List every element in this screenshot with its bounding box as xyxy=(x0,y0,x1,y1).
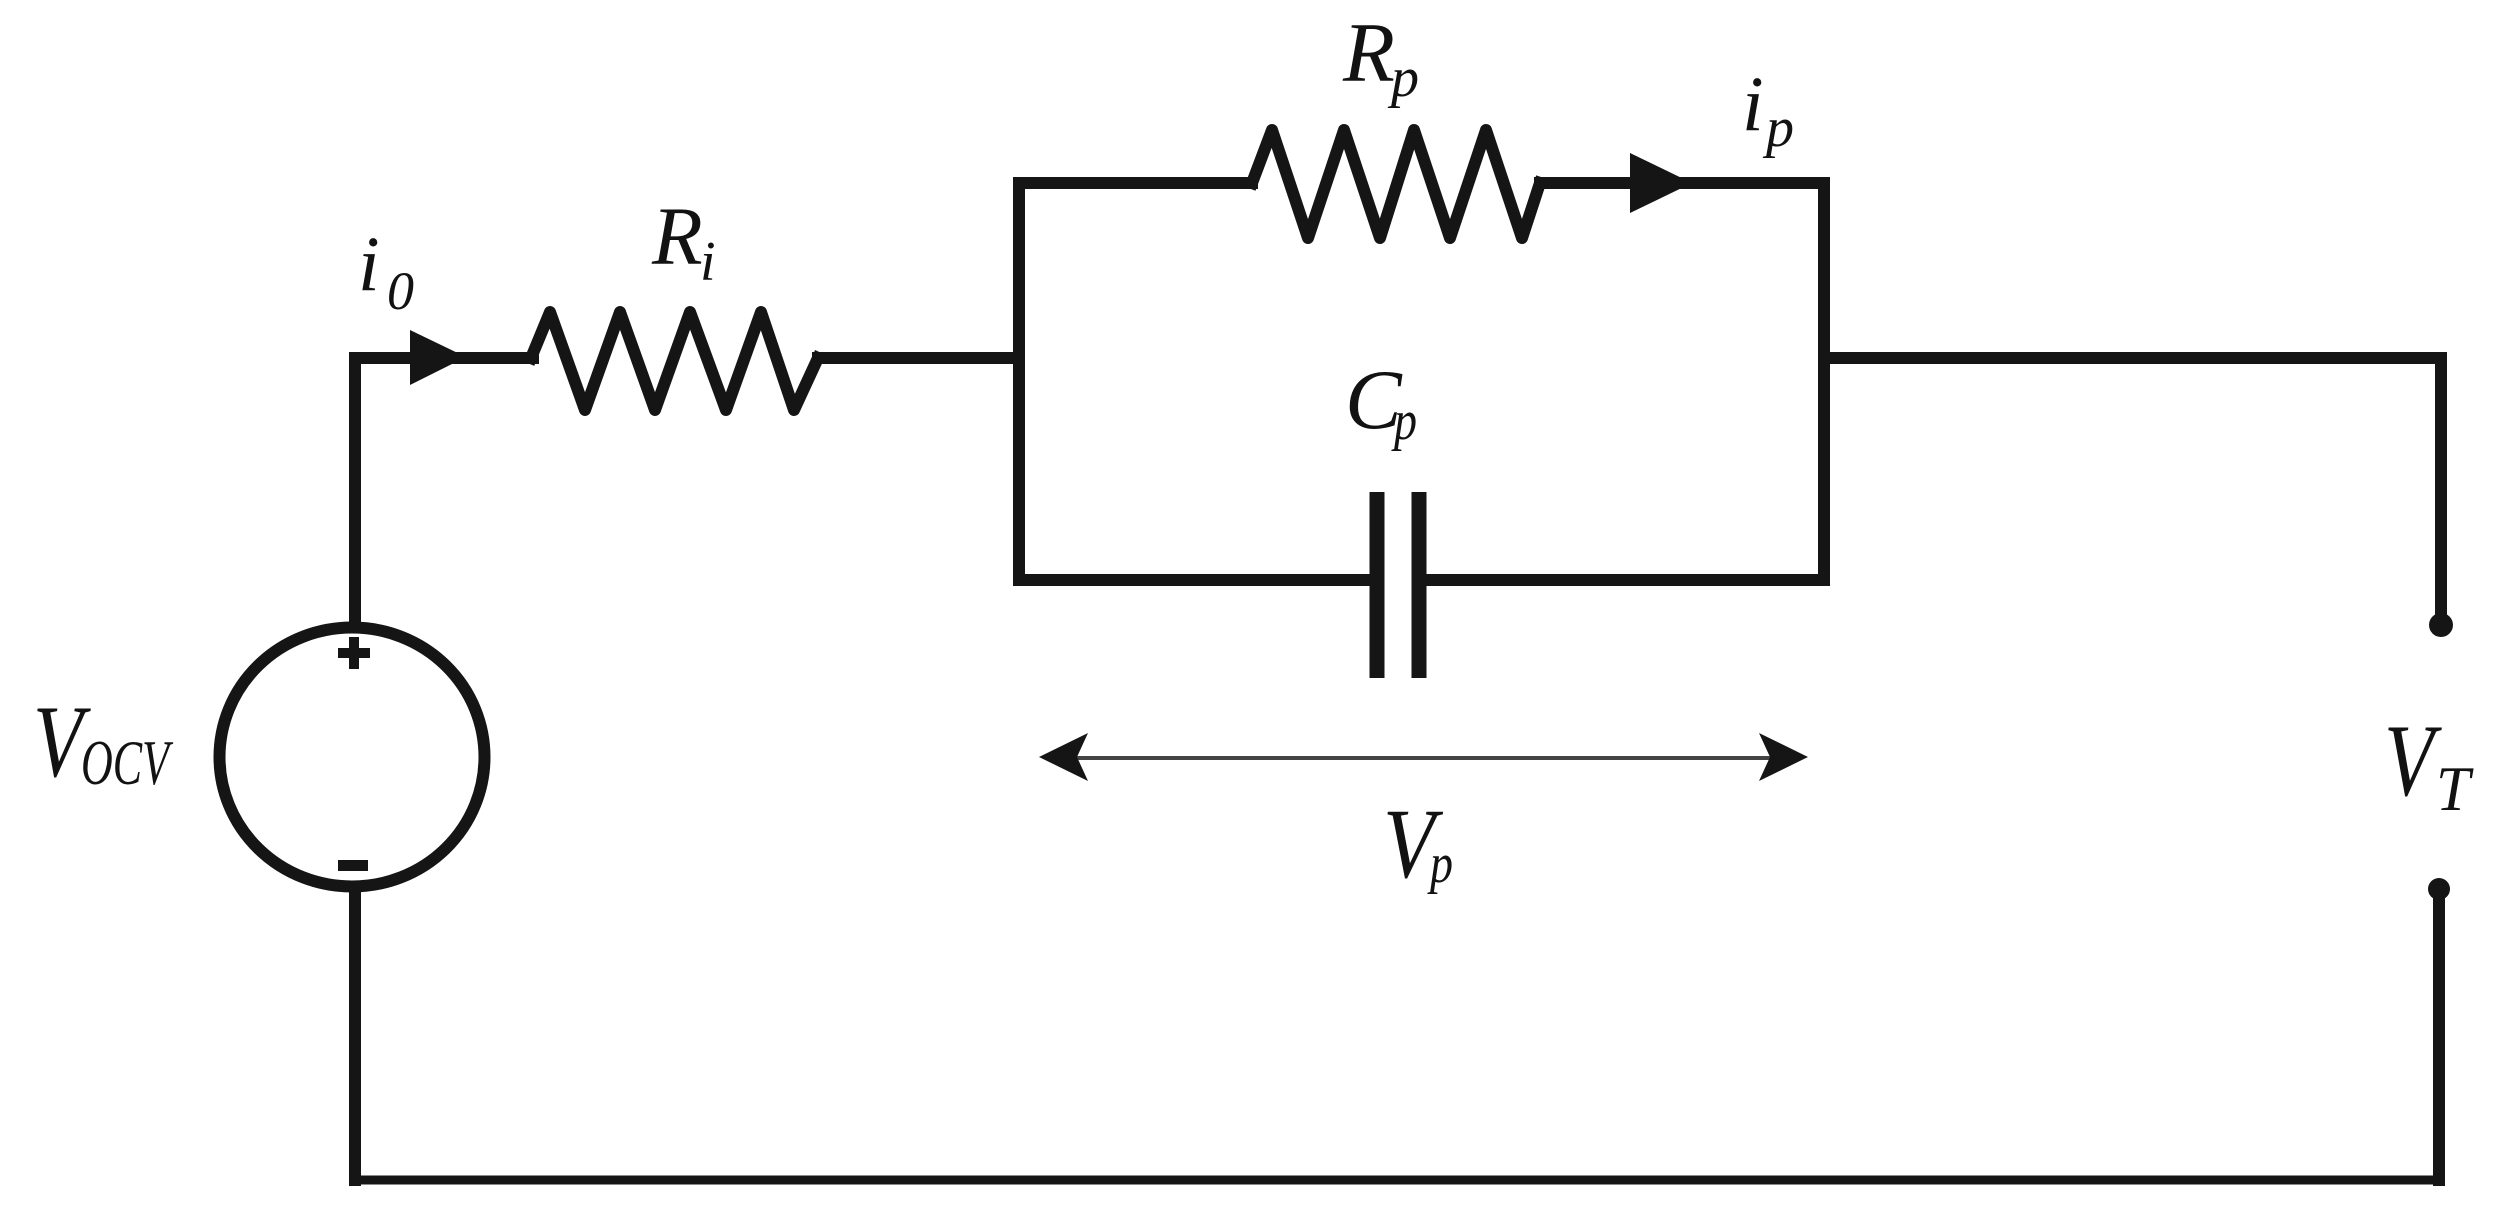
wire bottom return xyxy=(355,1176,2439,1185)
current arrow i0 xyxy=(410,330,466,385)
minus polarity mark xyxy=(338,860,368,871)
svg-text:i0: i0 xyxy=(358,220,414,321)
wire from source bottom to return wire xyxy=(349,892,361,1180)
svg-text:Vp: Vp xyxy=(1383,788,1453,899)
wire terminal vertical lower xyxy=(2433,898,2445,1180)
wire bottom branch left to capacitor Cp xyxy=(1019,574,1370,586)
wire from Ri to parallel block left node xyxy=(818,352,1019,364)
wire bottom branch right from capacitor Cp xyxy=(1426,574,1824,586)
svg-text:Ri: Ri xyxy=(651,190,716,293)
resistor Ri xyxy=(531,312,818,410)
wire from node C to terminal VT+ xyxy=(1824,352,2441,364)
wire top-left from source to resistor Ri xyxy=(355,358,533,621)
voltage arrow Vp double-headed xyxy=(1039,733,1808,781)
node dot terminal VT- xyxy=(2428,878,2450,900)
node C right vertical of RC block xyxy=(1818,183,1830,580)
wire top branch left to Rp xyxy=(1019,177,1252,189)
current arrow ip xyxy=(1630,153,1692,213)
voltage source V_OCV circle xyxy=(220,628,485,887)
svg-text:VOCV: VOCV xyxy=(33,685,174,799)
node dot terminal VT+ xyxy=(2429,613,2453,637)
plus polarity mark xyxy=(338,637,370,669)
wire top branch right from Rp to node C xyxy=(1540,177,1824,189)
resistor Rp xyxy=(1252,130,1540,238)
capacitor Cp xyxy=(1377,492,1419,678)
svg-text:Rp: Rp xyxy=(1342,6,1419,109)
svg-text:Cp: Cp xyxy=(1345,353,1417,452)
svg-text:VT: VT xyxy=(2384,704,2474,824)
node B left vertical of RC block xyxy=(1013,183,1025,580)
wire terminal vertical upper xyxy=(2435,358,2447,616)
svg-text:ip: ip xyxy=(1742,60,1794,159)
